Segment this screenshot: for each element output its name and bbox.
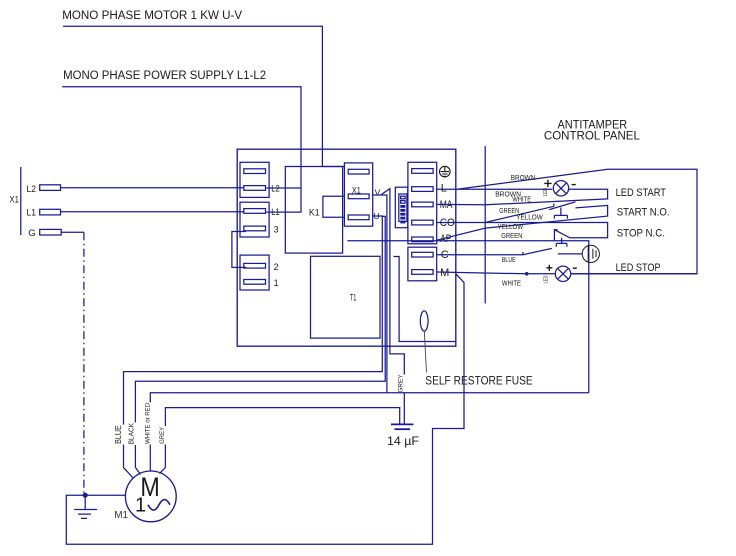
svg-text:L1: L1 (271, 207, 279, 217)
svg-text:L: L (441, 182, 447, 194)
svg-text:L1: L1 (27, 208, 36, 219)
ground junction dot (83, 493, 88, 498)
plus sign LED START (544, 180, 551, 187)
junction dot (525, 272, 529, 276)
svg-text:3: 3 (274, 224, 279, 234)
svg-text:1: 1 (274, 278, 279, 288)
svg-text:V: V (375, 187, 381, 197)
wire C row with tamper switch (437, 248, 583, 254)
wire V stub down to white-red row (373, 195, 387, 393)
svg-text:L2: L2 (271, 184, 279, 194)
terminal block outputs upper (408, 162, 437, 244)
wire L2 to control box (61, 187, 244, 189)
terminal block outputs lower (408, 247, 437, 281)
minus sign LED STOP (573, 267, 577, 269)
jumper wire terminal 3 to terminal 2 (232, 232, 246, 268)
svg-text:BLUE: BLUE (114, 425, 123, 444)
terminal block section L2 (240, 162, 269, 197)
wire white-or-red long row from motor to M loop (150, 393, 589, 468)
stop button actuator (556, 238, 567, 247)
ground symbol (74, 495, 97, 518)
relay K1 box (285, 167, 342, 254)
buzzer symbol (582, 245, 599, 262)
plus sign LED STOP (546, 265, 552, 271)
LED STOP lamp symbol (555, 266, 570, 281)
svg-text:MONO PHASE POWER SUPPLY L1-L2: MONO PHASE POWER SUPPLY L1-L2 (63, 68, 266, 82)
self restore fuse symbol (ellipse) (420, 311, 428, 331)
motor M1 circle (125, 471, 176, 522)
terminal block section L1-3 (240, 202, 269, 237)
svg-text:T1: T1 (350, 293, 357, 303)
wire L brown outer loop to LED STOP return (437, 169, 697, 273)
K1 contact wires to X1 block terminals V and U (323, 196, 345, 217)
svg-text:2: 2 (274, 262, 279, 272)
svg-text:MONO PHASE MOTOR 1 KW U-V: MONO PHASE MOTOR 1 KW U-V (62, 8, 243, 22)
wire U down to blue motor lead row (124, 216, 383, 467)
connector X1 bracket (20, 167, 22, 235)
start button actuator (554, 208, 567, 219)
wire green branch to start button (485, 204, 554, 223)
pin connector block (395, 187, 408, 228)
svg-text:L2: L2 (27, 184, 36, 195)
svg-text:LED STOP: LED STOP (616, 262, 661, 274)
svg-text:CONTROL PANEL: CONTROL PANEL (544, 129, 640, 143)
motor lead stubs (124, 467, 166, 478)
svg-text:BLUE: BLUE (502, 255, 516, 264)
wire M return loop (66, 274, 464, 545)
svg-text:WHITE: WHITE (502, 279, 521, 288)
svg-text:X1: X1 (9, 194, 19, 205)
protective earth symbol at terminal block (440, 166, 451, 177)
svg-text:GREY: GREY (398, 374, 405, 393)
wire AP row long horizontal to buzzer line (347, 241, 588, 393)
LED START lamp symbol (553, 181, 568, 196)
wire L branch through LED START (437, 189, 608, 205)
svg-text:STOP N.C.: STOP N.C. (617, 227, 665, 239)
control unit enclosure box (237, 149, 456, 346)
start n.o. contact blade (437, 202, 608, 240)
svg-text:LED: LED (544, 275, 550, 283)
svg-text:LED: LED (543, 188, 549, 196)
terminal block X1 motor (344, 163, 372, 226)
svg-text:YELLOW: YELLOW (516, 213, 543, 222)
svg-text:WHITE: WHITE (512, 194, 531, 203)
minus sign LED START (572, 184, 576, 186)
capacitor 14 uF (391, 423, 414, 425)
motor tilde (148, 500, 170, 511)
wire G dash-dot earth line down to motor ground (61, 231, 84, 233)
svg-text:LED START: LED START (616, 187, 667, 199)
wire L1 to control box (61, 211, 244, 213)
svg-text:M1: M1 (114, 510, 128, 521)
panel boundary line (484, 146, 486, 304)
wire U second branch down to black motor lead row (135, 216, 385, 467)
svg-text:X1: X1 (352, 186, 361, 197)
terminal block section 2-1 (240, 255, 269, 290)
svg-text:14 µF: 14 µF (387, 434, 419, 448)
svg-text:SELF RESTORE FUSE: SELF RESTORE FUSE (425, 374, 533, 388)
svg-text:BROWN: BROWN (511, 173, 536, 182)
wire pocket below output block (393, 257, 455, 342)
svg-text:BLACK: BLACK (127, 423, 136, 444)
wire from motor title to X1 connector top (63, 26, 344, 166)
fuse leader line (424, 331, 426, 372)
transformer T1 box (311, 256, 381, 338)
wire V diagonal branch down to capacitor (grey) (381, 189, 405, 425)
svg-text:GREEN: GREEN (501, 231, 522, 240)
wire CO row horizontal to stop n.c. (437, 223, 608, 241)
wire M row to LED STOP (437, 272, 697, 274)
svg-text:WHITE or RED: WHITE or RED (144, 403, 151, 444)
svg-text:1: 1 (135, 494, 146, 516)
svg-text:GREY: GREY (159, 426, 166, 443)
wire from power supply title to terminals L2 L1 (62, 87, 301, 212)
svg-text:START N.O.: START N.O. (617, 207, 670, 219)
svg-text:G: G (28, 228, 35, 239)
svg-text:YELLOW: YELLOW (498, 222, 524, 231)
wire grey motor lead to capacitor (165, 408, 399, 468)
svg-text:M: M (440, 267, 449, 279)
svg-text:K1: K1 (309, 207, 320, 218)
